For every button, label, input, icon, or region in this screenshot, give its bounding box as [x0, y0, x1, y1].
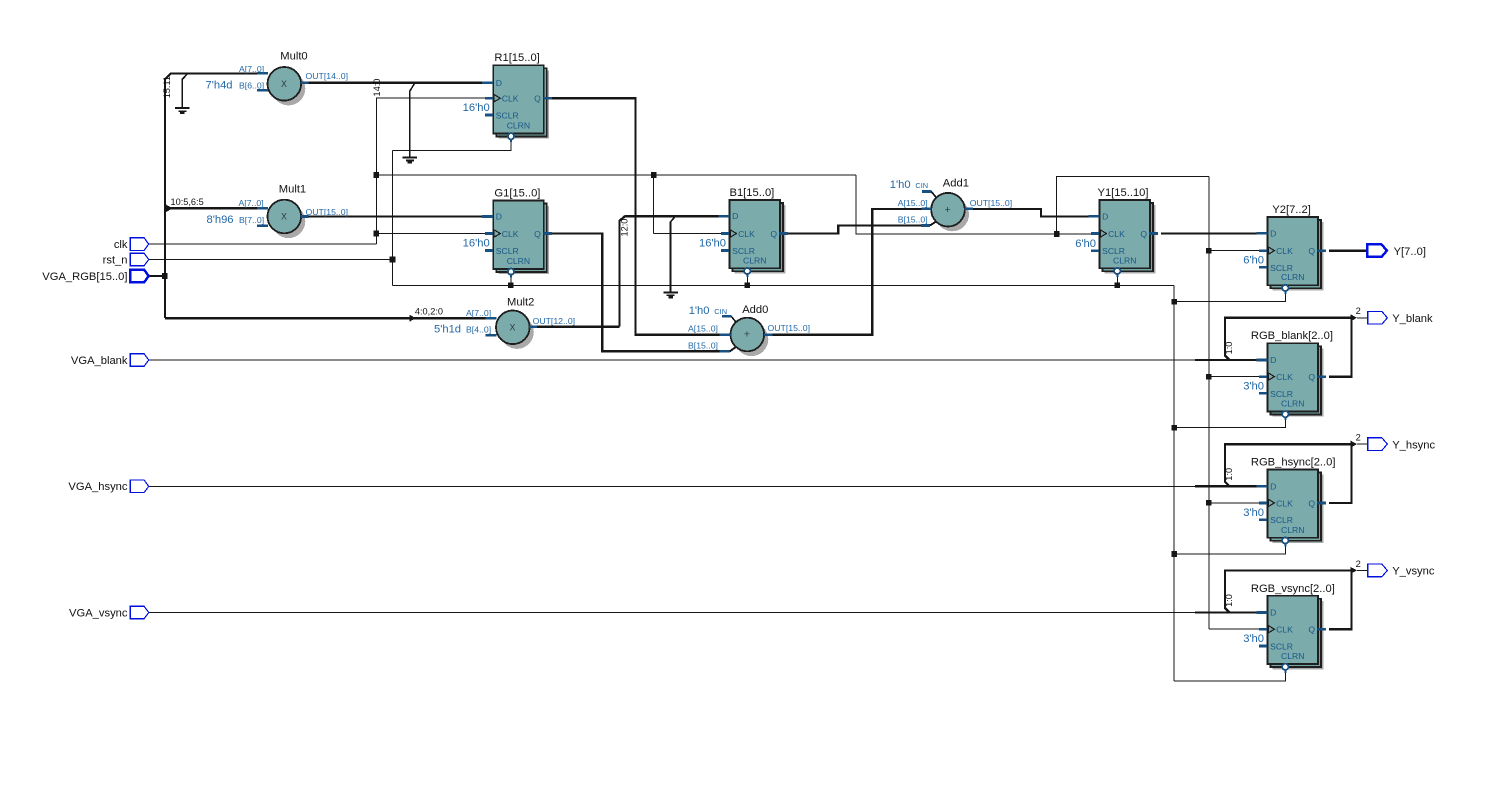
svg-text:Y[7..0]: Y[7..0]	[1394, 246, 1426, 258]
svg-text:1:0: 1:0	[1224, 594, 1234, 607]
svg-text:CLK: CLK	[1276, 372, 1293, 382]
svg-text:1:0: 1:0	[1224, 342, 1234, 355]
svg-text:B[7..0]: B[7..0]	[239, 215, 264, 225]
output port Y_hsync	[1368, 438, 1388, 451]
svg-text:6'h0: 6'h0	[1243, 255, 1264, 267]
svg-text:1:0: 1:0	[1224, 468, 1234, 481]
wire clk to R1.CLK	[376, 97, 487, 99]
svg-text:CLK: CLK	[1276, 246, 1293, 256]
wire VGA_RGB input to rail junction	[149, 275, 165, 277]
svg-text:D: D	[1270, 355, 1276, 365]
wire clk to G1.CLK	[376, 233, 487, 235]
svg-text:Q: Q	[1308, 498, 1315, 508]
svg-text:Q: Q	[770, 229, 777, 239]
wire gnd tap diagonal at Mult0.A	[182, 74, 187, 79]
adder Add0	[735, 323, 769, 357]
svg-text:CLK: CLK	[1108, 229, 1125, 239]
svg-text:D: D	[1270, 481, 1276, 491]
svg-text:2: 2	[1356, 559, 1361, 569]
node junction VGA_RGB port-rail	[162, 273, 168, 279]
node junction clk/RGB_hsync	[1206, 500, 1212, 506]
wire Y1.CLRN drop	[1116, 272, 1118, 286]
svg-text:16'h0: 16'h0	[699, 238, 726, 250]
svg-text:CLRN: CLRN	[1113, 255, 1136, 265]
wire CLRN distribution y=285	[393, 284, 1175, 286]
svg-text:SCLR: SCLR	[1270, 641, 1293, 651]
wire RGB_vsync feedback loop	[1225, 570, 1351, 629]
wire Add1.B stub and diagonal	[921, 224, 930, 227]
svg-text:CLRN: CLRN	[507, 121, 530, 131]
wire VGA_hsync long run	[148, 485, 1195, 487]
svg-text:Mult2: Mult2	[507, 296, 534, 308]
output port Y_vsync	[1368, 564, 1388, 577]
svg-text:Mult0: Mult0	[280, 51, 307, 63]
svg-text:Q: Q	[1308, 372, 1315, 382]
node junction CLRN/RGB_blank	[1171, 425, 1177, 431]
wire CLRN to RGB_hsync	[1174, 544, 1285, 554]
register G1[15..0]	[498, 206, 549, 274]
wire VGA_RGB vertical rail x=165	[164, 79, 166, 318]
wire riser x=619 up to B1.D	[618, 221, 620, 327]
svg-text:1'h0: 1'h0	[890, 179, 911, 191]
wire VGA_vsync long run	[148, 612, 1195, 614]
node junction CLRN/B1	[745, 283, 751, 289]
node junction clk/Y1	[1054, 231, 1060, 237]
svg-text:CLRN: CLRN	[743, 255, 766, 265]
svg-text:15:11: 15:11	[162, 76, 172, 98]
svg-text:SCLR: SCLR	[1270, 515, 1293, 525]
wire G1.Q to Add0.B	[551, 234, 720, 352]
wire clk distribution horizontal y=175	[376, 174, 856, 176]
svg-text:SCLR: SCLR	[1270, 389, 1293, 399]
wire R1.Q to Add0.A	[551, 98, 720, 334]
svg-text:Q: Q	[534, 94, 541, 104]
wire Mult2.OUT to riser	[530, 325, 620, 327]
wire Y1.Q to Y2.D	[1161, 232, 1257, 234]
wire clk to RGB_hsync.CLK	[1209, 502, 1262, 504]
svg-text:OUT[15..0]: OUT[15..0]	[768, 323, 811, 333]
ground symbol below B1	[663, 291, 677, 293]
svg-text:X: X	[509, 323, 515, 333]
svg-text:clk: clk	[114, 239, 128, 251]
node junction CLRN/G1	[508, 283, 514, 289]
svg-text:R1[15..0]: R1[15..0]	[494, 52, 539, 64]
node junction clk distribution start	[374, 172, 380, 178]
register Y1[15..10]	[1105, 205, 1156, 273]
svg-text:14:0: 14:0	[372, 79, 382, 97]
multiplier Mult0	[272, 72, 306, 106]
svg-text:VGA_blank: VGA_blank	[71, 355, 128, 367]
svg-text:X: X	[281, 79, 287, 89]
wire Add0.B stub and diagonal	[720, 350, 730, 353]
svg-text:+: +	[945, 204, 951, 216]
register RGB_vsync[2..0]	[1273, 601, 1324, 669]
svg-text:D: D	[496, 78, 502, 88]
svg-text:A[7..0]: A[7..0]	[239, 198, 264, 208]
node junction CLRN/Y1	[1115, 283, 1121, 289]
wire B1.CLRN drop	[746, 272, 748, 286]
svg-text:RGB_blank[2..0]: RGB_blank[2..0]	[1251, 330, 1333, 342]
svg-text:CLRN: CLRN	[1281, 399, 1304, 409]
svg-text:VGA_RGB[15..0]: VGA_RGB[15..0]	[42, 271, 127, 283]
svg-text:10:5,6:5: 10:5,6:5	[171, 197, 204, 207]
svg-text:RGB_hsync[2..0]: RGB_hsync[2..0]	[1251, 457, 1336, 469]
node junction clk/B1 drop	[651, 172, 657, 178]
svg-text:7'h4d: 7'h4d	[206, 79, 233, 91]
wire clk drop to B1.CLK	[653, 175, 655, 234]
svg-text:SCLR: SCLR	[496, 110, 519, 120]
svg-text:Y1[15..10]: Y1[15..10]	[1098, 187, 1149, 199]
node junction CLRN y=302	[1171, 299, 1177, 305]
svg-text:OUT[15..0]: OUT[15..0]	[970, 198, 1013, 208]
svg-text:B[15..0]: B[15..0]	[898, 215, 928, 225]
output port Y_blank	[1368, 312, 1388, 325]
input port clk	[130, 238, 148, 251]
svg-text:Q: Q	[1140, 229, 1147, 239]
wire rst_n riser x=392	[392, 151, 394, 286]
wire rail to Mult2.A horizontal	[165, 317, 486, 319]
wire clk to RGB_blank.CLK	[1209, 376, 1262, 378]
wire Add1.OUT to Y1.D	[972, 209, 1088, 217]
wire clk riser x=1056 to top run	[1057, 176, 1209, 234]
wire clk from port to riser	[148, 243, 376, 245]
svg-text:+: +	[744, 329, 750, 341]
svg-text:D: D	[1270, 608, 1276, 618]
svg-text:OUT[14..0]: OUT[14..0]	[306, 71, 349, 81]
svg-text:5'h1d: 5'h1d	[434, 324, 461, 336]
svg-text:OUT[12..0]: OUT[12..0]	[533, 316, 576, 326]
input port rst_n	[130, 253, 148, 266]
svg-text:CLRN: CLRN	[1281, 651, 1304, 661]
svg-text:B1[15..0]: B1[15..0]	[730, 187, 775, 199]
svg-text:D: D	[732, 211, 738, 221]
svg-text:A[7..0]: A[7..0]	[239, 64, 264, 74]
svg-text:CLK: CLK	[1276, 625, 1293, 635]
node junction CLRN/RGB_hsync	[1171, 551, 1177, 557]
node junction clk/RGB_blank	[1206, 374, 1212, 380]
wire B1.Q to Add1.B	[787, 226, 921, 234]
input port VGA_vsync	[130, 606, 148, 619]
svg-text:3'h0: 3'h0	[1243, 633, 1264, 645]
svg-text:Y_hsync: Y_hsync	[1392, 439, 1435, 451]
wire CLRN to RGB_blank	[1174, 417, 1285, 427]
node junction clk/G1	[374, 231, 380, 237]
wire arrow to Y_hsync port	[1350, 441, 1357, 448]
wire arrow to Y_vsync port	[1350, 567, 1357, 574]
adder Add1	[935, 198, 969, 232]
svg-text:D: D	[496, 212, 502, 222]
wire slice corner diagonal to Mult0.A	[164, 73, 171, 80]
svg-text:A[15..0]: A[15..0]	[898, 198, 928, 208]
wire RGB_blank feedback loop	[1225, 318, 1351, 377]
wire gnd tap diagonal on R1.D wire	[410, 83, 415, 91]
svg-text:CLK: CLK	[738, 229, 755, 239]
svg-text:B[15..0]: B[15..0]	[688, 340, 718, 350]
svg-text:X: X	[281, 212, 287, 222]
svg-text:Mult1: Mult1	[279, 184, 306, 196]
wire VGA_blank long run	[148, 359, 1195, 361]
wire Mult0.OUT to R1.D	[308, 82, 483, 84]
svg-text:3'h0: 3'h0	[1243, 507, 1264, 519]
svg-text:RGB_vsync[2..0]: RGB_vsync[2..0]	[1251, 583, 1335, 595]
svg-text:OUT[15..0]: OUT[15..0]	[306, 207, 349, 217]
wire gnd merge diagonal at B1.D	[671, 216, 676, 222]
svg-text:4:0,2:0: 4:0,2:0	[415, 306, 443, 316]
svg-text:CIN: CIN	[915, 181, 928, 190]
wire clk to Y2.CLK	[1209, 250, 1262, 252]
svg-text:Q: Q	[1308, 625, 1315, 635]
multiplier Mult1	[272, 205, 306, 239]
svg-text:CLRN: CLRN	[1281, 272, 1304, 282]
svg-text:Y_blank: Y_blank	[1392, 313, 1433, 325]
svg-text:D: D	[1102, 211, 1108, 221]
svg-text:Y2[7..2]: Y2[7..2]	[1272, 204, 1311, 216]
svg-text:Add0: Add0	[742, 304, 768, 316]
svg-text:1'h0: 1'h0	[689, 305, 710, 317]
register RGB_blank[2..0]	[1273, 348, 1324, 416]
wire Y2.Q to output port Y	[1329, 249, 1367, 251]
wire G1.CLRN drop	[510, 272, 512, 285]
svg-text:8'h96: 8'h96	[207, 214, 234, 226]
svg-text:CLRN: CLRN	[1281, 525, 1304, 535]
input port VGA_RGB[15..0]	[130, 270, 148, 283]
wire clk to RGB_vsync.CLK	[1209, 628, 1262, 630]
svg-text:12:0: 12:0	[620, 219, 630, 237]
wire Add0.OUT to Add1.A	[772, 209, 922, 335]
register B1[15..0]	[735, 205, 786, 273]
wire CLRN to RGB_vsync	[1174, 670, 1285, 681]
wire to R1.CLRN	[393, 140, 511, 151]
svg-text:Q: Q	[1308, 246, 1315, 256]
svg-text:CLK: CLK	[1276, 498, 1293, 508]
wire CLRN corner x=1174 down	[1173, 285, 1175, 681]
wire rst_n from port	[148, 259, 392, 261]
ground symbol near Mult0	[175, 107, 189, 109]
wire rail to Mult0.A horizontal	[171, 72, 258, 74]
svg-text:2: 2	[1356, 306, 1361, 316]
svg-text:2: 2	[1356, 433, 1361, 443]
wire clk riser x=376	[375, 98, 377, 245]
svg-text:A[7..0]: A[7..0]	[466, 308, 491, 318]
register R1[15..0]	[498, 70, 549, 138]
input port VGA_hsync	[130, 480, 148, 493]
svg-text:A[15..0]: A[15..0]	[688, 324, 718, 334]
svg-text:16'h0: 16'h0	[463, 102, 490, 114]
input port VGA_blank	[130, 354, 148, 367]
multiplier Mult2	[500, 315, 534, 349]
svg-text:6'h0: 6'h0	[1075, 238, 1096, 250]
svg-text:G1[15..0]: G1[15..0]	[494, 188, 540, 200]
wire arrow to Y_blank port	[1350, 314, 1357, 321]
svg-text:3'h0: 3'h0	[1243, 381, 1264, 393]
wire Mult1.OUT to G1.D	[308, 215, 483, 217]
svg-text:D: D	[1270, 228, 1276, 238]
svg-text:CLK: CLK	[502, 94, 519, 104]
svg-text:VGA_hsync: VGA_hsync	[68, 481, 127, 493]
svg-text:Add1: Add1	[943, 178, 969, 190]
svg-text:CLK: CLK	[502, 229, 519, 239]
svg-text:16'h0: 16'h0	[463, 238, 490, 250]
register RGB_hsync[2..0]	[1273, 475, 1324, 543]
svg-text:B[6..0]: B[6..0]	[239, 80, 264, 90]
ground symbol below R1.D wire	[403, 157, 417, 159]
svg-text:Q: Q	[534, 229, 541, 239]
svg-text:Y_vsync: Y_vsync	[1392, 566, 1435, 578]
svg-text:rst_n: rst_n	[103, 254, 128, 266]
svg-text:CIN: CIN	[714, 307, 727, 316]
wire RGB_hsync feedback loop	[1225, 444, 1351, 503]
node junction rst_n riser	[390, 257, 396, 263]
svg-text:VGA_vsync: VGA_vsync	[69, 607, 128, 619]
wire clk drop x=856 to Y1 row	[856, 175, 1094, 234]
wire clk long riser x=1209	[1208, 176, 1210, 629]
output port Y[7..0]	[1367, 244, 1387, 257]
node junction clk/Y2	[1206, 248, 1212, 254]
wire slice diagonal into B1.D	[619, 216, 626, 222]
wire CLRN to Y2	[1174, 291, 1285, 301]
wire rail tap arrow to Mult1.A	[166, 205, 173, 212]
svg-text:B[4..0]: B[4..0]	[466, 325, 491, 335]
wire to B1.D horizontal	[625, 215, 719, 217]
register Y2[7..2]	[1273, 222, 1324, 290]
wire arrow on Mult2.A	[409, 315, 416, 322]
svg-text:SCLR: SCLR	[496, 246, 519, 256]
svg-text:CLRN: CLRN	[507, 256, 530, 266]
